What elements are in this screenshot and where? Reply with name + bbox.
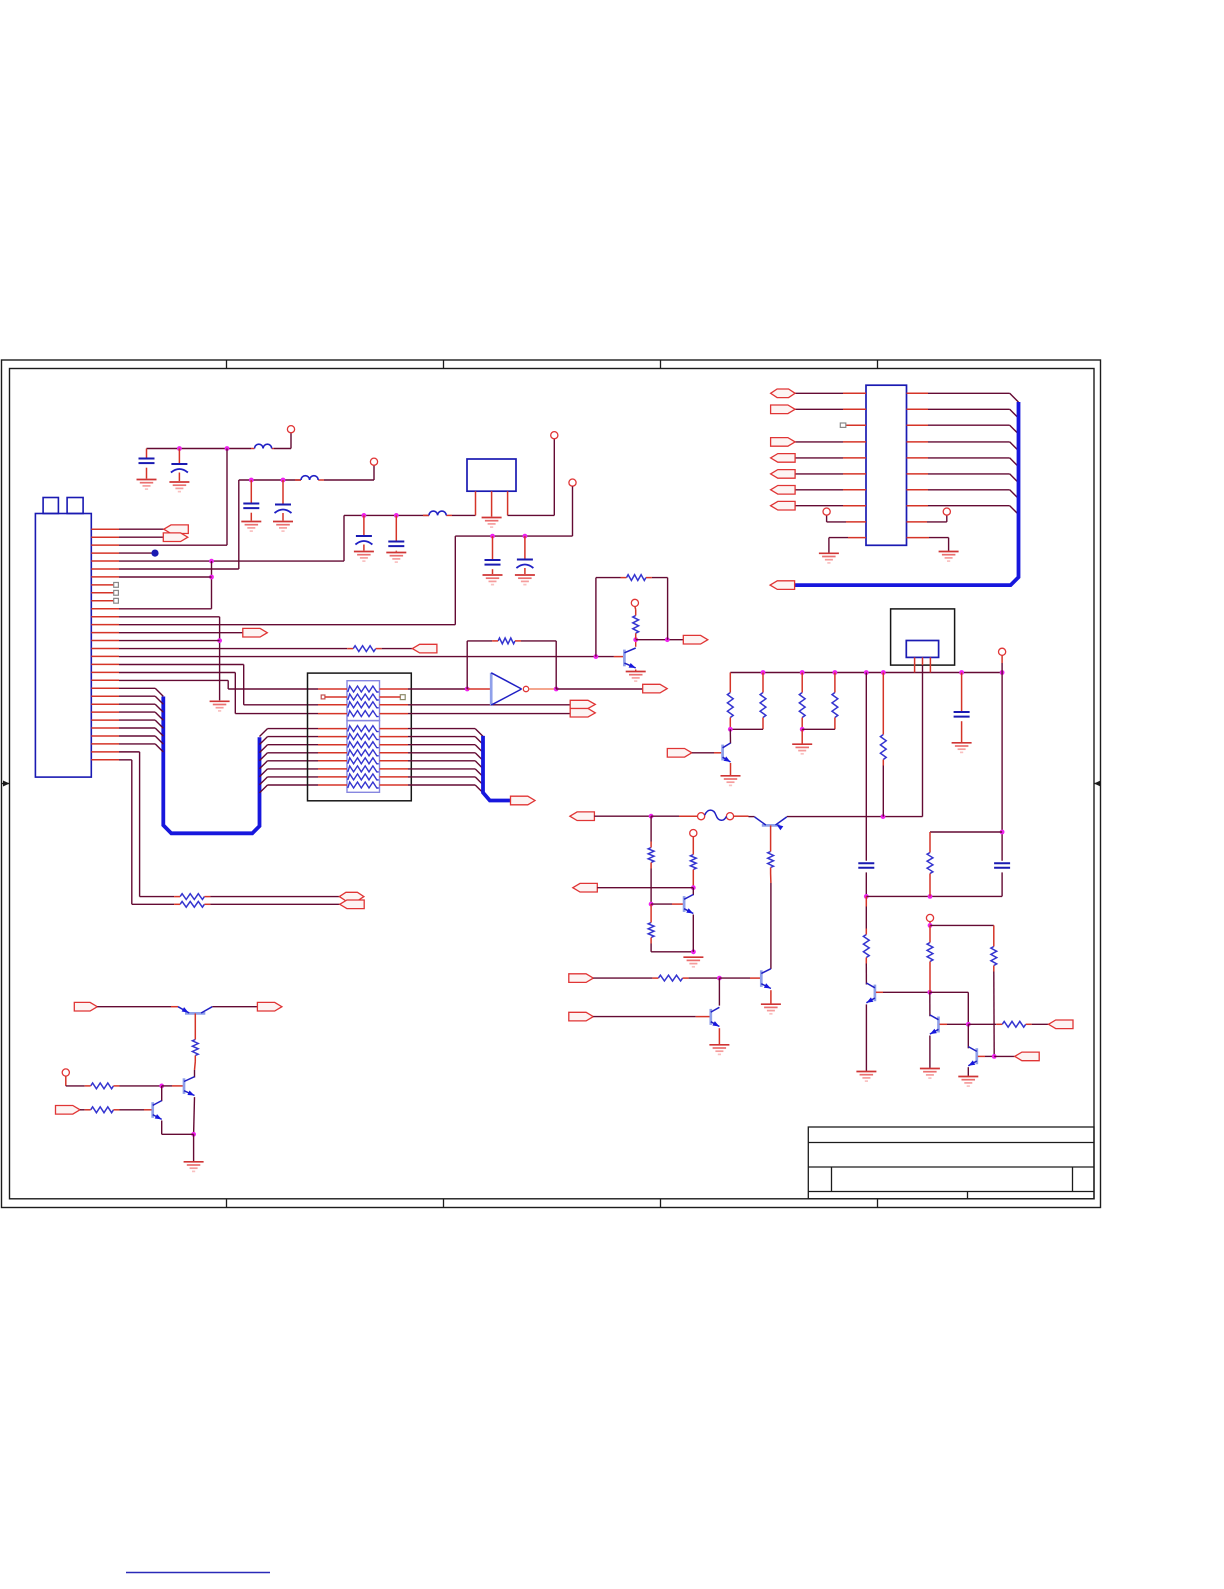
ground Q5 — [856, 1072, 876, 1082]
transistor Q11 — [762, 824, 780, 827]
transistor Q9 — [162, 1085, 172, 1087]
regulator U2 pins — [475, 491, 477, 515]
transistor Q7 — [967, 1024, 969, 1048]
jumper U1 pin9 right — [927, 521, 947, 523]
port P5 bus — [511, 796, 536, 805]
pack jumper pads — [321, 695, 325, 699]
power terminal rail1 — [287, 426, 294, 433]
wire inverter out lead — [529, 688, 557, 690]
resistor R1 — [353, 646, 376, 652]
wire Q6 base row out — [968, 1023, 996, 1025]
resistor R14 — [658, 975, 682, 981]
power terminal R23 — [62, 1069, 69, 1076]
wire pack row1 feed — [119, 679, 228, 681]
wire loop 925 row — [930, 924, 994, 926]
ground C9 — [952, 743, 972, 753]
wire pin12 ground tie — [119, 616, 220, 618]
port P3 — [119, 632, 243, 634]
port P29 bus — [770, 581, 795, 590]
port P26 — [771, 470, 796, 479]
resistor R11 — [650, 816, 652, 841]
junction sw — [649, 814, 654, 819]
capacitor C9 — [961, 673, 963, 713]
port P13 — [569, 974, 594, 983]
resistor R13 — [692, 837, 694, 849]
ground Q2 — [683, 957, 703, 967]
port P2 — [119, 536, 163, 538]
junction rail f — [959, 670, 964, 675]
resistor R6 — [762, 673, 764, 687]
wire connector pin7 — [119, 576, 212, 578]
resistor R15 — [929, 832, 931, 847]
title block — [808, 1127, 1094, 1199]
offpage ports P6 P7 — [570, 700, 595, 708]
port P19 — [74, 1002, 97, 1011]
ground U1 right — [939, 552, 959, 562]
wire Q5 base — [876, 991, 883, 993]
ground U1 left — [819, 553, 839, 563]
wire Q4 collector — [729, 729, 731, 743]
wire pin16 row — [119, 648, 347, 650]
resistor R24 — [91, 1107, 114, 1113]
wire U2 out — [508, 514, 555, 516]
wire rail4 to connector pin13 — [454, 536, 456, 625]
junction rail4 b — [523, 534, 528, 539]
wire pins 29-30 down — [119, 751, 140, 753]
crystal Y1 pins — [914, 657, 916, 672]
junction rail g — [1000, 670, 1005, 675]
ground C8 — [515, 575, 535, 585]
regulator U2 — [467, 459, 516, 491]
port P18 — [340, 900, 365, 909]
junction R7 bottom — [800, 727, 805, 732]
transistor Q5 — [874, 985, 877, 1002]
wire Q6 collector — [929, 992, 931, 1016]
wire U1 pin10 left — [829, 537, 848, 539]
wire row 904 — [132, 903, 174, 905]
ground Q4 — [721, 776, 741, 786]
transistor Q8 — [185, 1012, 205, 1015]
power terminal rail — [999, 648, 1006, 655]
inductor L3 — [429, 511, 446, 515]
ground C3 — [241, 522, 261, 532]
wire Q7 base row out — [994, 1055, 1015, 1057]
transistor Q6 — [937, 1017, 940, 1033]
resistor R16 chain — [865, 896, 867, 906]
wire connector pin15 — [119, 640, 220, 642]
power terminal R17 — [926, 914, 933, 921]
inductor L1 — [255, 444, 272, 448]
wire pack row3 feed — [119, 664, 244, 666]
port P22 — [771, 389, 796, 398]
junction rail c — [833, 670, 838, 675]
resistor R17 — [929, 925, 931, 936]
wire R8 join — [802, 728, 835, 730]
pack row wires in box — [318, 689, 408, 785]
port P28 — [771, 501, 796, 510]
resistor R2 feedback — [498, 638, 515, 644]
ground Q9 — [184, 1162, 204, 1172]
junction Q2 gnd — [691, 949, 696, 954]
junction Q3 base — [717, 976, 722, 981]
resistor R3 — [627, 575, 646, 581]
wire Q2 collector — [692, 888, 694, 896]
junction R15 bottom row — [928, 894, 933, 899]
wire Q12 collector — [718, 978, 720, 1006]
wire bottom rail row — [866, 895, 1002, 897]
wire Q5 base to Q6 col — [930, 991, 969, 993]
resistor R5 — [729, 673, 731, 687]
IC U1 left wires — [795, 393, 843, 505]
port P25 — [771, 454, 796, 463]
capacitor C11 — [858, 863, 874, 868]
resistor R23 — [65, 1076, 67, 1086]
wire crystal case — [922, 665, 924, 817]
pack RN1 body — [347, 681, 380, 721]
junction rail1 a — [177, 446, 182, 451]
junction rail3 a — [362, 513, 367, 518]
capacitor C7 — [492, 536, 494, 560]
junction pin15 tie — [217, 638, 222, 643]
jumper U1 pin9 left — [827, 521, 846, 523]
resistor R4 — [634, 607, 637, 610]
wire row 897 — [140, 896, 175, 898]
frame zone ticks — [2, 360, 1101, 1208]
ground tie — [210, 701, 230, 711]
wire Q4 base — [692, 752, 714, 754]
junction fb right — [665, 637, 670, 642]
resistor R22 — [194, 1013, 196, 1033]
footer link underline — [126, 1572, 270, 1574]
wire Q6 base — [940, 1023, 948, 1025]
junction Q5 base — [927, 990, 932, 995]
junction pin5 tie — [209, 559, 214, 564]
wire Q8 to P20 — [212, 1006, 257, 1008]
wire P13 row — [593, 977, 652, 979]
junction loop832 — [1000, 830, 1005, 835]
transistor Q10 — [161, 1086, 163, 1101]
frame row tick arrows — [3, 781, 10, 787]
junction Q1 collector — [633, 637, 638, 642]
no-connect U1 pin3 — [840, 423, 846, 427]
port P20 — [257, 1002, 282, 1011]
wire Q11 emitter row — [787, 816, 923, 818]
junction Q7 base — [992, 1054, 997, 1059]
ground Q1 — [626, 672, 646, 682]
wire P11 to junction — [594, 815, 651, 817]
bus left entry wires — [119, 688, 163, 752]
port P15 — [1049, 1020, 1074, 1029]
wire pack rows out right — [408, 689, 570, 793]
port P11 — [570, 812, 595, 821]
resistor R20 — [180, 894, 204, 900]
junction Q2 base — [649, 902, 654, 907]
capacitor C6 — [395, 515, 397, 541]
frame inner border — [10, 369, 1095, 1199]
junction base row — [594, 654, 599, 659]
transistor Q2 — [651, 903, 672, 905]
connector J1 pin stubs — [91, 529, 119, 760]
IC U1 left pin leads — [843, 393, 866, 537]
connector J1 body — [35, 514, 91, 778]
junction C11 bottom — [864, 894, 869, 899]
IC U1 — [866, 385, 907, 545]
wire pack row4 feed — [119, 672, 235, 674]
power terminal rail2 — [370, 458, 377, 465]
junction rail3 b — [394, 513, 399, 518]
wire rail3 to connector pin5 — [343, 515, 345, 561]
port P23 — [771, 405, 796, 414]
power terminal rail4 — [569, 479, 576, 486]
wire U1 pin10 right — [929, 537, 949, 539]
wire P21 to Q10 — [80, 1109, 85, 1111]
resistor R10 under Q11 — [770, 825, 772, 845]
bus U1 — [795, 402, 1019, 585]
wire Q1 collector row — [636, 639, 684, 641]
wire sw lead — [651, 815, 679, 817]
ground R7 — [792, 744, 812, 754]
crystal box — [891, 609, 955, 665]
resistor R8 — [834, 673, 836, 687]
wire Q7 base — [978, 1055, 985, 1057]
ground C2 — [169, 482, 189, 492]
port P4 — [412, 644, 437, 653]
junction rail2 b — [281, 478, 286, 483]
port P27 — [771, 486, 796, 495]
junction R13 base row — [691, 885, 696, 890]
pack jumper wires — [325, 696, 347, 698]
wire sw to Q11 — [734, 815, 749, 817]
junction rail1 b — [225, 446, 230, 451]
bus left U — [163, 697, 259, 834]
ground C4 — [273, 522, 293, 532]
wire rail2 — [239, 479, 301, 481]
ground Q6 — [920, 1069, 940, 1079]
resistor R18 — [993, 925, 995, 940]
wire P19 to Q8 — [97, 1006, 171, 1008]
ground U2 — [482, 518, 502, 528]
junction inverter in — [465, 687, 470, 692]
wire rail1 — [147, 448, 252, 450]
port P21 — [56, 1106, 81, 1115]
resistor R12 — [650, 904, 652, 916]
wire rail3 — [344, 514, 429, 516]
port P12 — [573, 883, 598, 892]
capacitor C8 — [524, 536, 526, 559]
wire P14 row — [593, 1016, 696, 1018]
junction rail b — [800, 670, 805, 675]
inductor L2 — [301, 476, 318, 480]
wire inverter out — [556, 688, 643, 690]
port P10 — [667, 749, 692, 758]
junction inverter out — [554, 687, 559, 692]
wire rail2 riser — [373, 466, 375, 481]
bus right — [483, 736, 511, 801]
capacitor C5 — [363, 515, 365, 536]
power terminal R13 — [690, 830, 697, 837]
resistor R7 — [801, 673, 803, 687]
inverter U3 — [467, 688, 490, 690]
ground Q3 — [761, 1004, 781, 1014]
transistor Q3 — [760, 970, 763, 987]
connector J1 top tabs — [43, 498, 58, 514]
junction rail4 a — [490, 534, 495, 539]
power terminal R4 — [631, 599, 638, 606]
port P14 — [569, 1012, 594, 1021]
wire R12 to gnd rail — [651, 951, 693, 953]
capacitor C4 — [282, 480, 284, 505]
ground C7 — [483, 575, 503, 585]
capacitor C10 — [994, 863, 1010, 868]
pack RN2 body — [347, 721, 380, 793]
wire vert rail d — [865, 673, 867, 861]
port P8 — [643, 684, 668, 693]
test pads pins 8-10 — [114, 582, 119, 587]
feedback loop wires — [466, 641, 468, 689]
junction Q9 base — [159, 1084, 164, 1089]
port P9 — [683, 635, 708, 644]
resistor R9 — [882, 673, 884, 729]
junction tie pin7 — [209, 575, 214, 580]
wire loop832 — [930, 831, 1002, 833]
wire P12 row — [597, 887, 693, 889]
feedback loop Q1 — [595, 578, 597, 657]
capacitor C1 — [146, 449, 148, 459]
crystal Y1 — [906, 641, 938, 658]
port P24 — [771, 438, 796, 447]
junction Q11 R9 — [881, 814, 886, 819]
port P1 — [119, 528, 164, 530]
pack RN1 elements — [348, 686, 379, 692]
wire rail4 — [572, 486, 574, 536]
resistor pack box — [308, 673, 412, 801]
wire main rail — [730, 672, 1002, 674]
resistor R21 — [180, 901, 204, 907]
transistor Q12 — [709, 1009, 712, 1025]
wire rail1 riser — [290, 433, 292, 449]
junction rail2 a — [249, 478, 254, 483]
ground C6 — [386, 553, 406, 563]
IC U1 right pin leads — [907, 393, 930, 537]
junction rail d — [864, 670, 869, 675]
wire base row pin17 — [119, 656, 614, 658]
jumper SW1 — [698, 813, 705, 820]
bus left exit wires — [260, 729, 319, 793]
junction rail a — [761, 670, 766, 675]
transistor Q1 — [614, 656, 623, 658]
junction R17 — [928, 923, 933, 928]
capacitor C2 — [178, 449, 180, 465]
junction Q9 emitter — [191, 1132, 196, 1137]
ground Q12 — [709, 1045, 729, 1055]
wire vert rail g — [1001, 673, 1003, 861]
frame outer border — [2, 360, 1101, 1208]
power terminal U2 out — [551, 432, 558, 439]
port P17 — [339, 892, 364, 901]
transistor Q4 — [721, 745, 724, 761]
no-connect pin4 — [119, 552, 152, 554]
junction R5 bottom — [728, 727, 733, 732]
inverter U3 bubble — [523, 686, 528, 691]
junction rail e — [881, 670, 886, 675]
resistor R19 — [1002, 1021, 1025, 1027]
wire rail2 to connector pin6 — [238, 480, 240, 569]
port P16 — [1015, 1052, 1039, 1061]
wire R5 R6 join — [730, 728, 763, 730]
ground C5 — [354, 552, 374, 562]
junction Q6 base — [966, 1022, 971, 1027]
pack RN2 elements — [348, 726, 379, 732]
wire tie vertical x211 — [211, 561, 213, 609]
ground Q7 — [958, 1077, 978, 1087]
wire rail1 to connector pin3 — [226, 449, 228, 546]
ground C1 — [137, 480, 157, 490]
IC U1 right wires to bus — [928, 393, 1019, 514]
capacitor C3 — [250, 480, 252, 504]
